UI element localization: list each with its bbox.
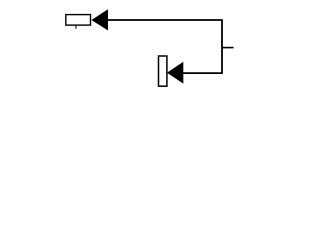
diode D1 pin stub bbox=[75, 26, 77, 29]
diode D2 body bbox=[159, 56, 167, 86]
node stub bbox=[222, 47, 234, 49]
diode D1 body bbox=[66, 15, 91, 26]
wire bbox=[107, 20, 222, 73]
diode D2 arrow bbox=[167, 62, 183, 84]
diode D1 arrow bbox=[92, 9, 109, 30]
